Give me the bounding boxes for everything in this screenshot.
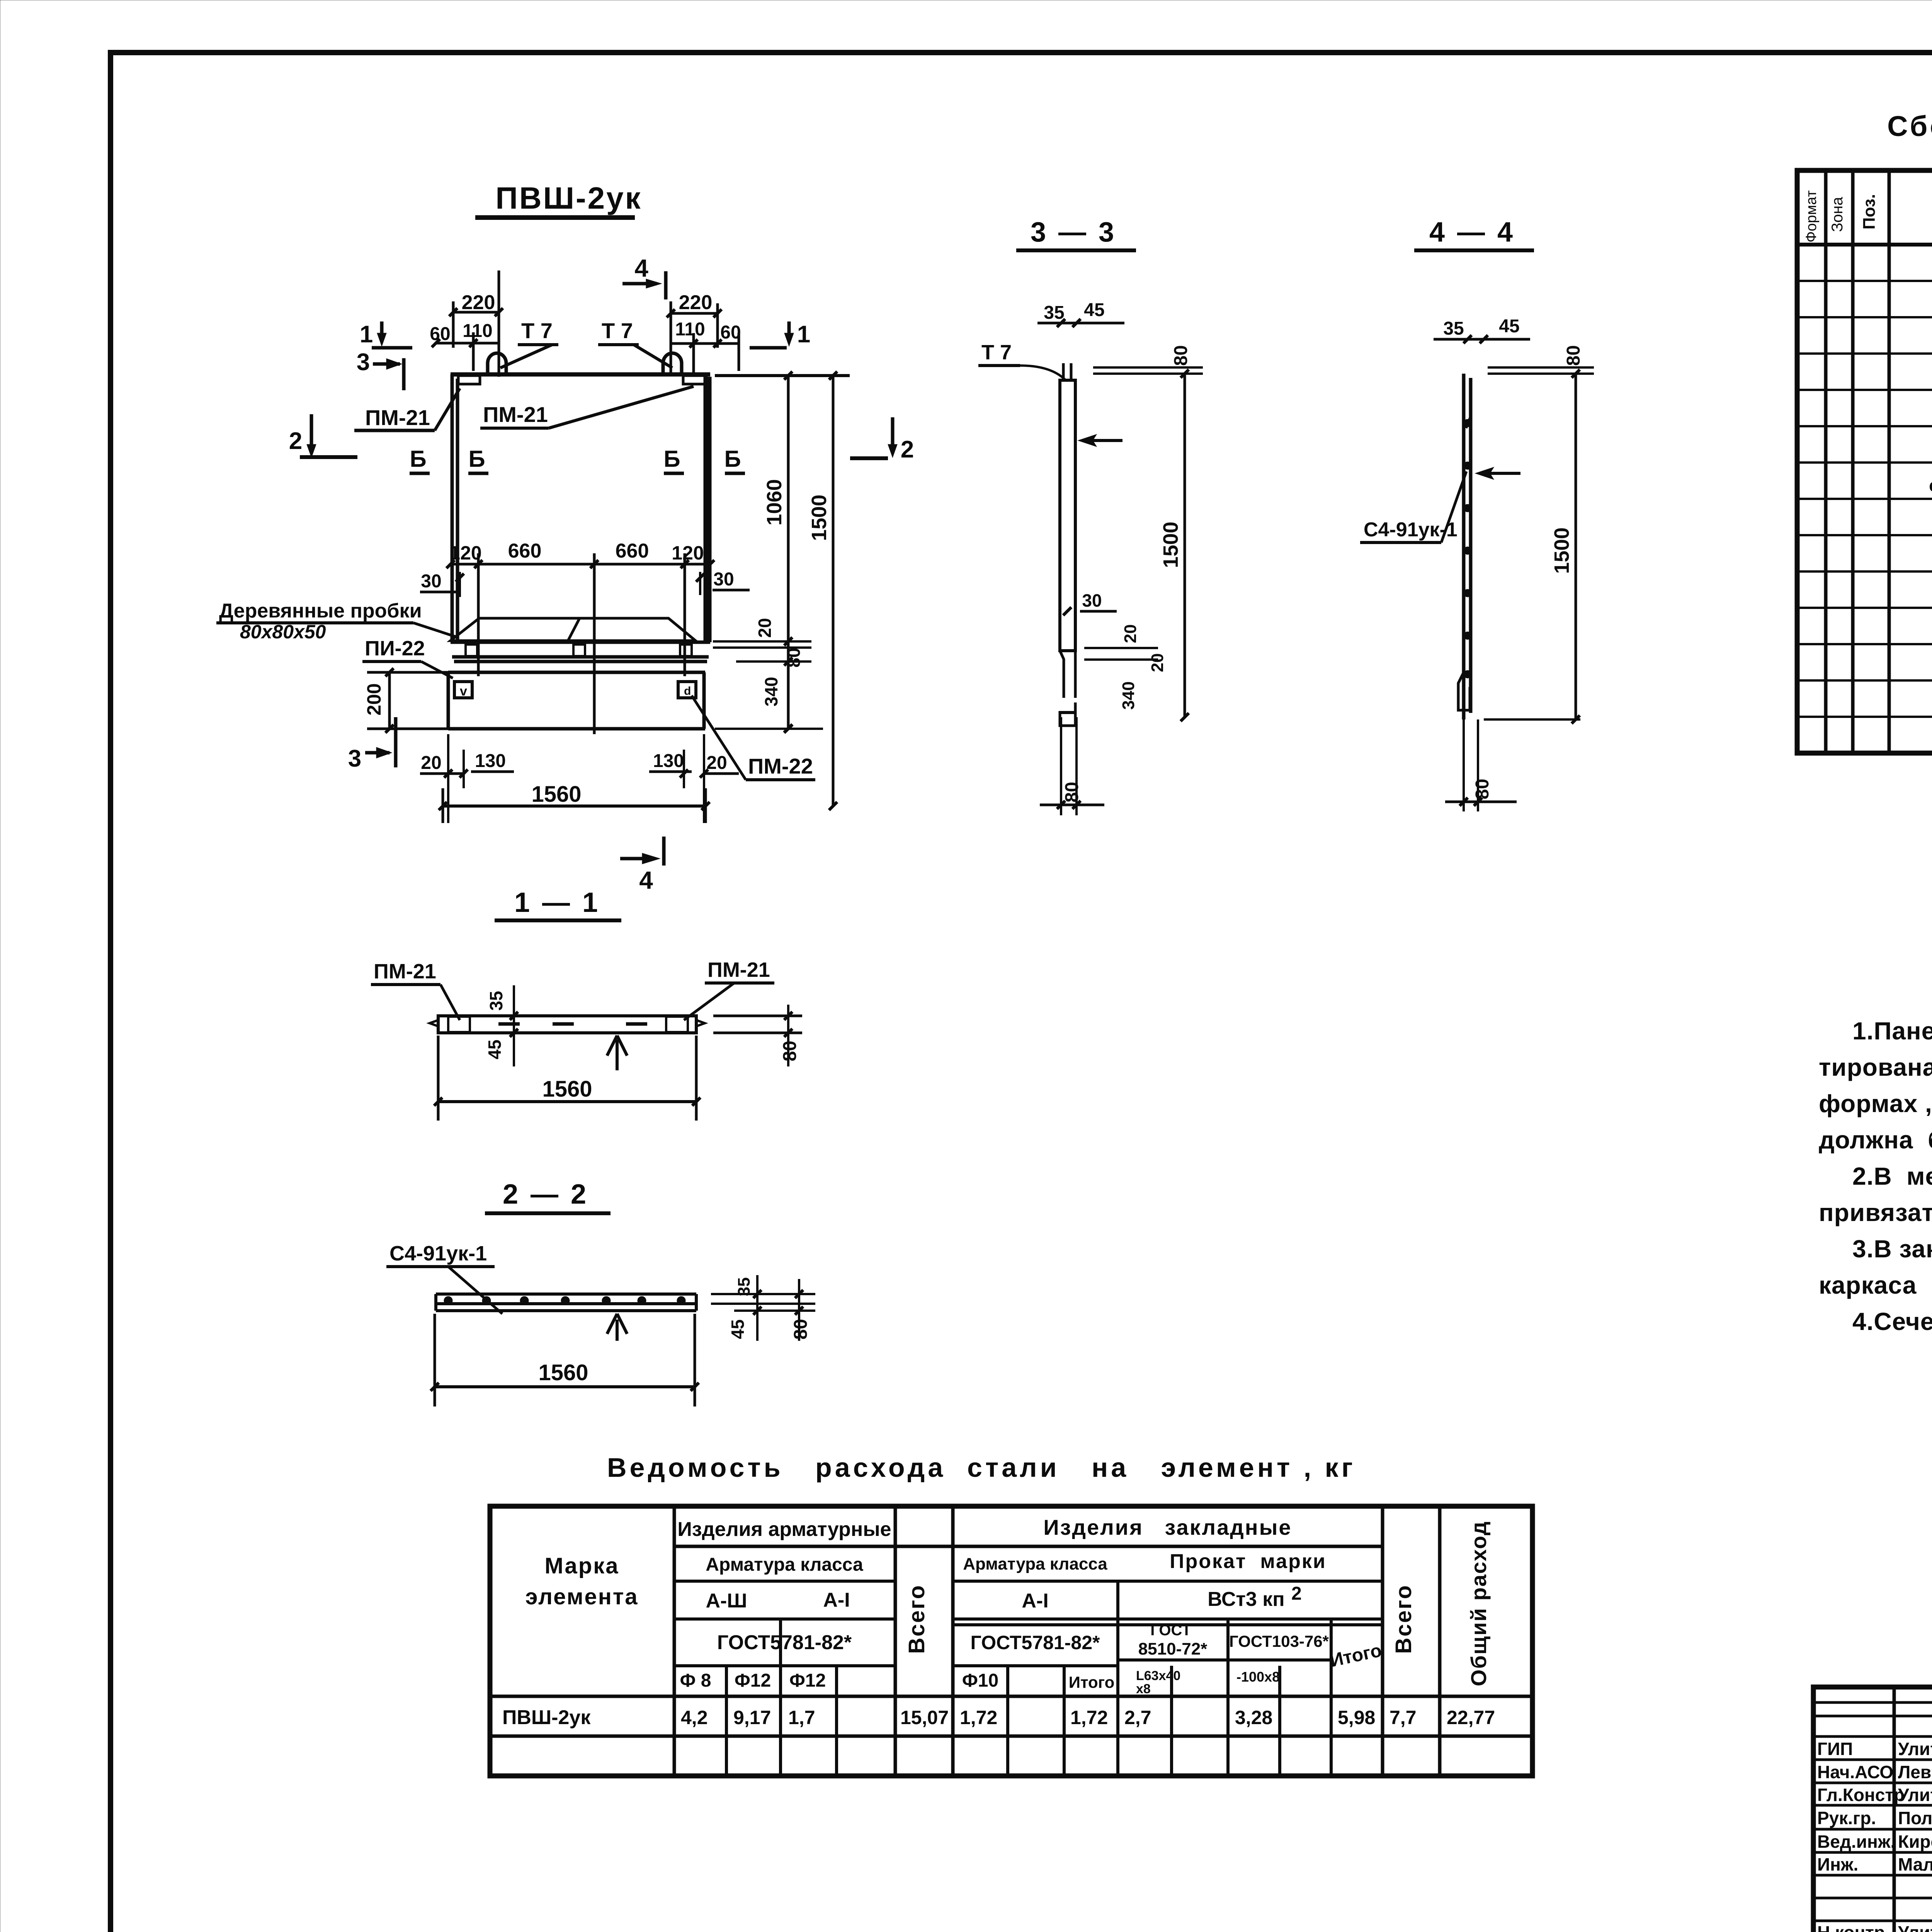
PM-22 embed squares (454, 682, 472, 698)
svg-text:ПИ-22: ПИ-22 (365, 637, 425, 660)
wooden plug strip (parallelogram) (451, 618, 696, 641)
svg-text:110: 110 (463, 321, 492, 341)
1-1 face arrow (607, 1036, 627, 1070)
svg-text:3,28: 3,28 (1235, 1707, 1272, 1728)
svg-text:сер. 83 р. 10.11-2.2 л.100: сер. 83 р. 10.11-2.2 л.100 (1929, 475, 1932, 495)
svg-text:1060: 1060 (763, 479, 786, 526)
svg-text:1,7: 1,7 (788, 1707, 815, 1728)
svg-text:1500: 1500 (1159, 522, 1182, 568)
svg-text:220: 220 (462, 291, 495, 314)
svg-text:35: 35 (1044, 303, 1064, 323)
svg-text:1.Панель вентиляционной шахт: 1.Панель вентиляционной шахты ПВШ-2ук за… (1852, 1017, 1932, 1045)
svg-text:ПВШ-2ук: ПВШ-2ук (495, 181, 642, 215)
svg-text:340: 340 (1119, 681, 1138, 709)
svg-text:А-I: А-I (823, 1589, 850, 1611)
svg-text:Инж.: Инж. (1817, 1854, 1858, 1874)
svg-text:х8: х8 (1136, 1682, 1151, 1696)
svg-text:130: 130 (475, 751, 506, 771)
svg-text:Общий расход: Общий расход (1466, 1521, 1491, 1686)
svg-text:4.Сечение Б-Б см. на листе 2: 4.Сечение Б-Б см. на листе 28. (1852, 1308, 1932, 1335)
svg-text:Изделия закладные: Изделия закладные (1043, 1515, 1292, 1539)
svg-text:4: 4 (639, 866, 653, 894)
svg-text:тирована с учетом изготовле: тирована с учетом изготовления её в гори… (1819, 1053, 1932, 1081)
4-4 pointing arrow (1480, 472, 1520, 475)
svg-text:Б: Б (468, 446, 485, 472)
svg-text:45: 45 (1499, 316, 1519, 337)
svg-text:80: 80 (1563, 345, 1584, 366)
svg-text:v: v (460, 684, 467, 699)
svg-text:ГОСТ5781-82*: ГОСТ5781-82* (717, 1631, 852, 1654)
svg-text:35: 35 (1443, 318, 1464, 339)
svg-text:200: 200 (363, 683, 385, 715)
svg-text:30: 30 (713, 569, 734, 590)
svg-text:Полосина: Полосина (1898, 1808, 1932, 1828)
svg-text:каркаса в опалубку поз. 3а: каркаса в опалубку поз. 3а отогнуть в по… (1819, 1271, 1932, 1299)
svg-text:ГОСТ103-76*: ГОСТ103-76* (1229, 1632, 1329, 1650)
svg-text:45: 45 (728, 1319, 748, 1339)
svg-text:4,2: 4,2 (681, 1707, 708, 1728)
svg-text:ПМ-21: ПМ-21 (707, 958, 770, 981)
svg-text:2 — 2: 2 — 2 (503, 1179, 588, 1210)
1-1 dim 80 (713, 1016, 802, 1033)
svg-text:ПМ-21: ПМ-21 (483, 402, 548, 427)
svg-text:1500: 1500 (1550, 527, 1573, 574)
svg-text:С4-91ук-1: С4-91ук-1 (389, 1242, 487, 1265)
svg-text:2: 2 (1291, 1583, 1302, 1604)
svg-text:80х80х50: 80х80х50 (240, 621, 326, 643)
right dims 20 80 340 (713, 641, 823, 729)
svg-text:80: 80 (1171, 345, 1191, 366)
svg-text:20: 20 (421, 753, 441, 773)
svg-text:Улитина: Улитина (1898, 1922, 1932, 1932)
svg-text:Формат: Формат (1803, 190, 1820, 243)
svg-text:ПМ-21: ПМ-21 (365, 405, 430, 430)
svg-text:Б: Б (663, 446, 680, 472)
svg-text:Киреева.: Киреева. (1898, 1832, 1932, 1852)
assembly table frame (1797, 170, 1932, 753)
svg-text:220: 220 (679, 291, 713, 314)
3-3 bar (1060, 380, 1075, 651)
svg-text:Ведомость расхода стали н: Ведомость расхода стали на элемент , кг (607, 1452, 1356, 1483)
svg-text:Улитина: Улитина (1898, 1739, 1932, 1759)
svg-text:4: 4 (634, 254, 648, 282)
svg-text:30: 30 (1082, 590, 1102, 611)
steel table frame (490, 1506, 1532, 1776)
main panel outline (451, 372, 710, 377)
svg-text:Ф 8: Ф 8 (680, 1670, 711, 1691)
svg-text:45: 45 (485, 1039, 505, 1059)
middle band (451, 642, 710, 662)
svg-text:1560: 1560 (531, 782, 581, 807)
svg-text:3 — 3: 3 — 3 (1031, 217, 1116, 248)
title block frame (1813, 1687, 1932, 1932)
svg-text:7,7: 7,7 (1389, 1707, 1417, 1728)
svg-text:Т 7: Т 7 (602, 318, 633, 343)
svg-text:1,72: 1,72 (960, 1707, 997, 1728)
svg-text:130: 130 (653, 751, 684, 771)
svg-text:А-Ш: А-Ш (706, 1590, 747, 1612)
svg-text:должна быть обращена к дну: должна быть обращена к дну формы. (1819, 1126, 1932, 1154)
2-2 face arrow (607, 1314, 627, 1341)
svg-text:2,7: 2,7 (1124, 1707, 1151, 1728)
svg-text:80: 80 (1062, 782, 1082, 802)
svg-text:L63х40: L63х40 (1136, 1668, 1180, 1683)
svg-text:15,07: 15,07 (900, 1707, 949, 1728)
svg-text:20: 20 (1121, 624, 1140, 643)
svg-text:35: 35 (486, 991, 506, 1010)
svg-text:ПМ-21: ПМ-21 (374, 960, 436, 983)
svg-text:ГОСТ: ГОСТ (1150, 1622, 1191, 1639)
svg-text:Малашта: Малашта (1898, 1854, 1932, 1874)
svg-text:Левина: Левина (1898, 1762, 1932, 1782)
svg-text:Улитина: Улитина (1898, 1785, 1932, 1805)
PM-21 plates at top corners (458, 376, 480, 384)
svg-text:Изделия арматурные: Изделия арматурные (677, 1518, 891, 1541)
svg-text:Прокат марки: Прокат марки (1170, 1550, 1327, 1573)
svg-text:1 — 1: 1 — 1 (514, 887, 600, 918)
svg-text:340: 340 (761, 677, 781, 707)
svg-text:ГОСТ5781-82*: ГОСТ5781-82* (971, 1632, 1100, 1653)
svg-text:Б: Б (410, 446, 426, 472)
svg-text:4 — 4: 4 — 4 (1429, 217, 1515, 248)
svg-text:ПМ-22: ПМ-22 (748, 754, 813, 778)
steel table vertical lines (674, 1506, 1440, 1776)
svg-text:5,98: 5,98 (1338, 1707, 1375, 1728)
svg-text:20: 20 (706, 753, 727, 773)
svg-text:45: 45 (1084, 300, 1104, 320)
svg-text:ВСт3 кп: ВСт3 кп (1207, 1588, 1284, 1611)
svg-text:ПВШ-2ук: ПВШ-2ук (502, 1706, 591, 1729)
svg-text:Арматура класса: Арматура класса (963, 1554, 1107, 1573)
band squares (466, 645, 477, 656)
bottom section (448, 672, 705, 729)
signature table (1894, 1687, 1932, 1932)
svg-text:60: 60 (430, 324, 450, 344)
svg-text:Рук.гр.: Рук.гр. (1817, 1808, 1876, 1828)
svg-text:3: 3 (348, 745, 361, 772)
svg-text:Марка: Марка (545, 1553, 619, 1578)
svg-text:привязать, а анкера закладны: привязать, а анкера закладных деталей пр… (1819, 1199, 1932, 1226)
svg-text:Т 7: Т 7 (521, 318, 553, 343)
svg-text:30: 30 (421, 571, 441, 592)
svg-text:110: 110 (675, 319, 705, 340)
svg-text:Поз.: Поз. (1860, 194, 1879, 230)
4-4 bar (1464, 374, 1471, 719)
svg-text:ГИП: ГИП (1817, 1739, 1853, 1759)
svg-text:1560: 1560 (538, 1360, 588, 1385)
svg-text:d: d (684, 685, 691, 697)
svg-text:Всего: Всего (1391, 1584, 1416, 1654)
svg-text:Зона: Зона (1829, 197, 1846, 232)
right dims 1060 1500 (715, 374, 850, 377)
svg-text:1500: 1500 (808, 495, 831, 541)
svg-text:формах , при этом лицевая п: формах , при этом лицевая поверхность (о… (1819, 1090, 1932, 1117)
svg-text:2: 2 (289, 428, 302, 454)
svg-text:Ф10: Ф10 (962, 1670, 998, 1691)
svg-text:Сборочные единицы на один э: Сборочные единицы на один элемент (1887, 110, 1932, 142)
svg-text:660: 660 (616, 540, 649, 562)
svg-text:80: 80 (780, 1041, 800, 1061)
svg-text:Гл.Констр: Гл.Констр (1817, 1785, 1905, 1805)
svg-text:Вед.инж.: Вед.инж. (1817, 1832, 1895, 1852)
svg-text:1560: 1560 (542, 1077, 592, 1102)
3-3 pointing arrow (1082, 439, 1122, 442)
svg-text:3.В закладной детале ПМ 21: 3.В закладной детале ПМ 21 после установ… (1852, 1235, 1932, 1263)
svg-text:20: 20 (755, 618, 775, 638)
svg-text:2: 2 (901, 436, 914, 463)
svg-text:1: 1 (797, 321, 810, 348)
svg-text:-100х8: -100х8 (1236, 1669, 1280, 1685)
svg-text:80: 80 (1472, 779, 1493, 799)
svg-text:элемента: элемента (525, 1584, 638, 1609)
svg-text:8510-72*: 8510-72* (1138, 1639, 1207, 1658)
svg-text:Ф12: Ф12 (789, 1670, 826, 1691)
svg-text:2.В местах пересечения со: 2.В местах пересечения со стержнями сетк… (1852, 1162, 1932, 1190)
svg-text:22,77: 22,77 (1447, 1707, 1495, 1728)
svg-text:660: 660 (508, 540, 542, 562)
steel table horizontal lines (674, 1545, 1383, 1548)
2-2 bar (436, 1294, 696, 1311)
svg-text:А-I: А-I (1022, 1590, 1048, 1612)
svg-text:9,17: 9,17 (733, 1707, 771, 1728)
svg-text:80: 80 (791, 1319, 811, 1339)
svg-text:1,72: 1,72 (1070, 1707, 1108, 1728)
montage loops on top (488, 353, 506, 374)
svg-text:1: 1 (360, 321, 373, 348)
svg-text:Н.контр: Н.контр (1817, 1922, 1885, 1932)
svg-text:Нач.АСО: Нач.АСО (1817, 1762, 1893, 1782)
1-1 bar (438, 1016, 696, 1033)
svg-text:Ф12: Ф12 (735, 1670, 771, 1691)
svg-text:Арматура класса: Арматура класса (706, 1554, 863, 1575)
svg-text:20: 20 (1148, 653, 1167, 672)
svg-text:Итого: Итого (1069, 1673, 1114, 1691)
svg-text:Т 7: Т 7 (981, 341, 1012, 364)
assembly table grid rows (1797, 281, 1932, 717)
svg-text:3: 3 (357, 349, 370, 376)
svg-text:Б: Б (724, 446, 741, 472)
svg-text:Всего: Всего (904, 1584, 929, 1654)
svg-text:Деревянные пробки: Деревянные пробки (219, 600, 422, 622)
